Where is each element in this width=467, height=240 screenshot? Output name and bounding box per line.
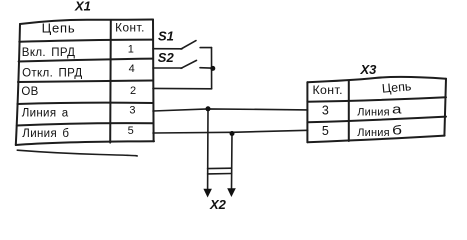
svg-text:б: б bbox=[392, 123, 402, 138]
svg-text:2: 2 bbox=[130, 85, 136, 97]
svg-text:Линия: Линия bbox=[357, 107, 390, 119]
svg-text:Вкл. ПРД: Вкл. ПРД bbox=[22, 47, 76, 59]
svg-text:Откл. ПРД: Откл. ПРД bbox=[22, 67, 82, 79]
svg-text:S2: S2 bbox=[158, 50, 175, 65]
svg-text:X1: X1 bbox=[74, 0, 91, 14]
svg-text:Цепь: Цепь bbox=[42, 21, 76, 36]
svg-text:3: 3 bbox=[322, 103, 329, 117]
svg-text:5: 5 bbox=[322, 124, 329, 138]
svg-text:Линия: Линия bbox=[357, 127, 390, 139]
svg-text:а: а bbox=[392, 101, 403, 116]
svg-text:3: 3 bbox=[129, 104, 135, 116]
svg-text:S1: S1 bbox=[158, 28, 174, 43]
svg-text:Цепь: Цепь bbox=[381, 79, 412, 96]
svg-text:Конт.: Конт. bbox=[312, 83, 342, 97]
svg-text:Конт.: Конт. bbox=[115, 21, 145, 35]
svg-text:5: 5 bbox=[128, 125, 134, 137]
svg-text:X3: X3 bbox=[360, 62, 378, 77]
svg-text:X2: X2 bbox=[209, 197, 227, 211]
svg-text:Линия б: Линия б bbox=[22, 128, 69, 140]
svg-text:4: 4 bbox=[129, 63, 135, 75]
svg-text:1: 1 bbox=[128, 43, 134, 55]
svg-text:Линия а: Линия а bbox=[22, 108, 69, 120]
svg-text:ОВ: ОВ bbox=[21, 86, 38, 98]
